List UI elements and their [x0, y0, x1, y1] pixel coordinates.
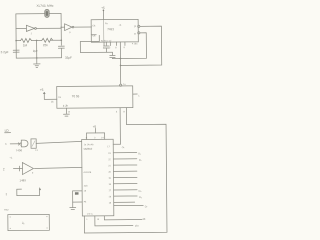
resistor R2 22k	[42, 38, 53, 42]
svg-text:Vc: Vc	[58, 96, 62, 99]
svg-text:13: 13	[35, 150, 38, 152]
wire data pin D6	[114, 189, 137, 191]
svg-text:70 55: 70 55	[72, 94, 80, 98]
ground oscillator	[33, 58, 40, 68]
resistor R1 1M	[20, 38, 31, 42]
svg-text:1a: 1a	[123, 84, 126, 86]
wire buffer input	[13, 166, 22, 171]
svg-text:19: 19	[109, 178, 112, 180]
svg-text:17: 17	[107, 146, 110, 148]
svg-text:3: 3	[6, 192, 8, 196]
capacitor C4	[104, 42, 110, 52]
power +5 U3	[40, 88, 57, 100]
wire data pin D3	[113, 170, 136, 172]
svg-text:8: 8	[68, 111, 70, 114]
junction x mark	[18, 143, 20, 146]
svg-text:4·2k: 4·2k	[63, 104, 69, 108]
svg-text:6: 6	[5, 143, 7, 146]
label U4 left texts	[83, 171, 93, 216]
wire key hook	[17, 188, 41, 196]
svg-text:8: 8	[134, 33, 136, 36]
svg-text:+5: +5	[40, 88, 44, 92]
svg-text:11: 11	[134, 25, 137, 28]
svg-text:17: 17	[109, 190, 112, 192]
ground U3	[63, 108, 69, 116]
svg-text:16: 16	[109, 196, 112, 198]
capacitor C5	[110, 52, 115, 58]
svg-text:9: 9	[32, 173, 34, 175]
ground side component	[70, 202, 76, 209]
capacitor C2 33pF	[58, 46, 64, 58]
wire data pin D1	[113, 158, 136, 160]
wire right vertical	[60, 14, 62, 46]
svg-text:7493: 7493	[107, 27, 114, 31]
svg-text:D₄: D₄	[139, 190, 142, 193]
svg-text:RS2: RS2	[4, 209, 9, 211]
svg-text:4 10a: 4 10a	[132, 43, 138, 45]
svg-text:Pa: Pa	[105, 23, 108, 25]
label D7	[114, 204, 143, 206]
wire left vertical	[15, 14, 17, 58]
node junction resistors	[36, 40, 38, 42]
svg-text:D₇: D₇	[145, 205, 148, 208]
svg-text:1b: 1b	[97, 219, 100, 221]
wire resistor row	[16, 40, 20, 42]
svg-text:D₁: D₁	[139, 159, 142, 162]
power +5 U2	[101, 6, 105, 20]
wire U3 to U4 clock	[119, 108, 121, 144]
svg-text:1489: 1489	[20, 178, 27, 182]
wire U2 to U3 clock	[119, 42, 121, 84]
svg-text:7406: 7406	[16, 148, 23, 152]
svg-text:21: 21	[108, 165, 111, 167]
wire U4 bottom pin 1	[104, 216, 142, 220]
svg-text:1M: 1M	[23, 43, 28, 47]
wire U3 output to right bus	[83, 107, 167, 233]
capacitor C1 2.2uF	[13, 50, 19, 52]
svg-text:18: 18	[109, 184, 112, 186]
wire clock pin U4	[113, 143, 120, 145]
svg-text:20: 20	[108, 172, 111, 174]
svg-text:23: 23	[108, 153, 111, 155]
wire resistor row right	[51, 39, 61, 41]
node loop junctions	[120, 58, 122, 67]
svg-text:+5: +5	[101, 6, 105, 10]
wire buffer output	[34, 167, 82, 168]
svg-text:D₅: D₅	[139, 196, 142, 199]
wire data pin D7	[114, 195, 137, 197]
svg-text:1: 1	[86, 219, 88, 221]
crystal XTAL1	[45, 10, 49, 18]
IC U2 7493 counter box	[91, 19, 138, 42]
wire U4 bottom pin 2	[95, 216, 133, 226]
svg-text:2·2μF: 2·2μF	[1, 50, 9, 54]
svg-text:15: 15	[109, 203, 112, 205]
label U4 right pin numbers	[108, 153, 112, 205]
svg-text:2: 2	[3, 167, 5, 171]
svg-text:o/o: o/o	[135, 224, 139, 228]
wire under U2 left	[80, 35, 112, 52]
svg-text:1a 14a 4b: 1a 14a 4b	[84, 144, 95, 146]
wire bottom rail oscillator	[16, 57, 61, 59]
wire center branch	[36, 40, 38, 57]
svg-text:Pk: Pk	[84, 201, 87, 203]
wire feedback loop A	[120, 26, 162, 65]
svg-text:+6: +6	[119, 25, 122, 27]
svg-text:+5: +5	[93, 125, 97, 129]
svg-text:J₁.: J₁.	[22, 221, 26, 225]
wire data pin D4	[114, 176, 137, 178]
wire data pin D0	[113, 152, 136, 154]
wire gate output	[36, 141, 82, 143]
output bubble QB	[138, 32, 140, 34]
svg-text:1: 1	[138, 95, 140, 98]
pin stub U2 bottom d	[124, 42, 126, 49]
svg-text:c 5r a.: c 5r a.	[87, 212, 93, 215]
svg-text:A.DATB: A.DATB	[83, 171, 91, 174]
svg-text:16: 16	[51, 100, 54, 103]
divider internal U2	[103, 20, 105, 42]
wire feedback loop B	[112, 33, 146, 59]
crystal side component U4	[73, 191, 83, 202]
node bottom junction	[36, 57, 38, 59]
label LD	[5, 129, 11, 133]
wire data pin D2	[113, 164, 136, 166]
wire data pin D5	[114, 183, 137, 185]
svg-text:+1.: +1.	[9, 156, 13, 159]
svg-text:TA8910: TA8910	[83, 147, 92, 151]
wire data pin D8	[114, 201, 135, 203]
svg-text:22: 22	[108, 159, 111, 161]
buffer U6 1489	[22, 162, 33, 174]
inverter U1B	[61, 24, 91, 35]
svg-text:9: 9	[123, 110, 125, 113]
svg-text:22k: 22k	[43, 43, 48, 47]
svg-text:8: 8	[115, 47, 117, 49]
svg-text:9: 9	[69, 32, 71, 34]
svg-text:XL743. MHz: XL743. MHz	[36, 4, 54, 8]
svg-text:2μF: 2μF	[33, 49, 38, 53]
label U4 top pins	[86, 137, 105, 139]
svg-text:33pF: 33pF	[65, 56, 72, 60]
svg-text:Ck₂: Ck₂	[92, 35, 96, 37]
pin stub U2 bottom a	[103, 42, 105, 49]
svg-text:4b: 4b	[142, 217, 145, 221]
connector J1 box	[8, 214, 50, 230]
wire pin Ck2 stub	[91, 34, 96, 36]
IC U3 4046 box	[57, 86, 133, 108]
svg-text:1Ch: 1Ch	[84, 185, 89, 187]
svg-text:9: 9	[124, 47, 126, 49]
svg-text:2: 2	[31, 33, 33, 35]
inverter U1A	[16, 25, 61, 35]
bubble clock input U3	[120, 84, 122, 86]
svg-text:D₀: D₀	[138, 152, 141, 155]
label U4 bottom pin marks	[86, 219, 100, 221]
svg-text:4: 4	[116, 111, 118, 114]
IC U4 UART box	[82, 139, 114, 216]
wire U4 bottom pin 3	[83, 216, 85, 233]
svg-text:15: 15	[84, 190, 87, 192]
output bubble QA	[138, 25, 140, 27]
pin stub U2 bottom c	[115, 42, 117, 49]
svg-text:Ck₁: Ck₁	[92, 25, 96, 27]
pin stub U2 bottom b	[109, 42, 111, 49]
svg-text:Ck: Ck	[122, 147, 126, 149]
wire gate input	[10, 143, 21, 145]
gate U5 7406	[21, 139, 36, 149]
power +5 U4	[87, 125, 105, 140]
label U3 pin right	[133, 94, 141, 98]
svg-text:LD: LD	[5, 129, 10, 133]
wire top rail oscillator	[16, 13, 61, 15]
wire between resistors	[32, 39, 42, 41]
